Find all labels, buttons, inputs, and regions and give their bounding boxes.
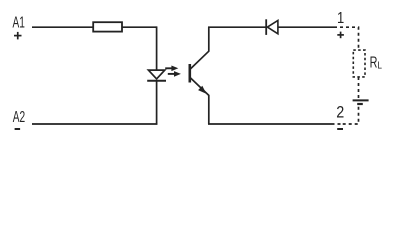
wire collector to diode bbox=[208, 26, 266, 28]
svg-text:2: 2 bbox=[336, 104, 344, 122]
wire emitter rail to terminal 2 bbox=[208, 123, 332, 125]
phototransistor emitter arrow bbox=[198, 86, 206, 94]
battery cell negative plate bbox=[357, 103, 363, 105]
light arrow 2 bbox=[168, 71, 181, 77]
phototransistor Q1 base bar bbox=[189, 64, 192, 83]
terminal A2 label bbox=[13, 109, 25, 126]
svg-text:L: L bbox=[377, 61, 382, 72]
wire LED cathode down to bottom rail bbox=[156, 81, 158, 125]
phototransistor emitter lead bbox=[190, 77, 209, 124]
dashed wire RL to battery bbox=[358, 77, 360, 100]
resistor R (input series) bbox=[93, 22, 122, 31]
terminal 2 polarity - bbox=[337, 128, 343, 130]
wire diode to terminal 1 bbox=[278, 26, 337, 28]
terminal A1 polarity + bbox=[14, 32, 22, 40]
wire A2 bottom rail bbox=[32, 123, 157, 125]
dashed wire terminal 1 to load branch bbox=[340, 27, 359, 50]
terminal A1 label bbox=[13, 15, 25, 32]
battery cell positive plate bbox=[353, 99, 369, 101]
wire resistor to top corner bbox=[122, 26, 157, 28]
terminal 1 label bbox=[337, 10, 344, 27]
dashed wire stub at terminal 2 bbox=[332, 123, 342, 125]
terminal A2 polarity - bbox=[15, 128, 21, 130]
dashed wire battery to terminal 2 bbox=[341, 107, 359, 124]
light arrow 1 bbox=[165, 66, 178, 72]
diode D2 (output series) bbox=[266, 19, 278, 35]
svg-text:A1: A1 bbox=[13, 15, 25, 32]
terminal 2 label bbox=[336, 104, 344, 122]
terminal 1 polarity + bbox=[337, 32, 344, 39]
svg-text:1: 1 bbox=[337, 10, 344, 27]
load resistor RL (dashed) bbox=[353, 50, 365, 77]
wire vertical down to LED anode bbox=[156, 26, 158, 70]
phototransistor collector lead bbox=[190, 27, 209, 69]
svg-text:A2: A2 bbox=[13, 109, 25, 126]
svg-text:R: R bbox=[370, 54, 378, 71]
LED D1 (optocoupler emitter diode) bbox=[147, 70, 166, 81]
label RL bbox=[370, 54, 383, 71]
wire A1 to resistor bbox=[32, 26, 93, 28]
